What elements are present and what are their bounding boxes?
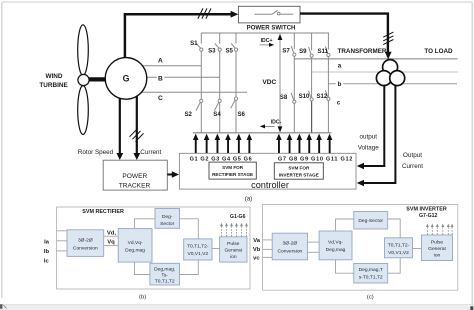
svg-text:INVERTER STAGE: INVERTER STAGE [279, 172, 319, 177]
svg-text:Current: Current [140, 149, 161, 156]
switch S12 [325, 83, 330, 132]
Output Current label [402, 152, 423, 170]
svg-text:Generat: Generat [428, 246, 446, 252]
wire T0 block to pulse generation (b) [212, 248, 220, 250]
page border top [2, 1, 472, 3]
wire Ib input [57, 240, 68, 242]
svg-text:s-T0,T1,T2: s-T0,T1,T2 [359, 275, 383, 281]
bottom caption strip [0, 305, 474, 310]
hash marks on generator-switch wire [198, 8, 211, 18]
svg-text:IDC-: IDC- [271, 119, 282, 125]
SVM INVERTER outer box (c) [263, 205, 458, 291]
gate pulse dashed arrows (b) [222, 226, 247, 237]
IDC+ direction arrow [260, 43, 275, 47]
svg-text:C: C [158, 95, 163, 102]
wire Vq (b) [104, 245, 119, 247]
block Deg,mag,Ts to T0,T1,T2 (b) [150, 263, 180, 285]
svg-text:POWER SWITCH: POWER SWITCH [247, 25, 296, 32]
switch S8 [291, 59, 296, 133]
IDC- direction arrow [260, 124, 275, 128]
wind turbine bottom blade [78, 86, 89, 135]
block Deg-Sector (c) [354, 212, 388, 230]
svg-text:b: b [338, 81, 342, 88]
wire vc input [263, 256, 273, 258]
svg-text:ion: ion [434, 253, 441, 259]
switch S9 [309, 33, 314, 71]
wire rotor speed sense [119, 98, 121, 155]
wire conversion to Vd,Vq block upper (c) [308, 241, 320, 243]
switch S5 [231, 33, 237, 92]
wire T0 block to pulse generation (c) [413, 248, 422, 250]
turbine shaft [87, 77, 107, 81]
svg-text:Vd,: Vd, [107, 231, 117, 237]
transformer winding right [390, 71, 405, 86]
svg-text:Deg-: Deg- [162, 214, 173, 220]
block T0,T1,T2 to V0,V1,V2 (b) [184, 239, 212, 260]
switch S10 [309, 71, 314, 132]
svg-text:Pulse: Pulse [227, 241, 240, 247]
wire Va input [263, 239, 273, 241]
DC top rail [201, 32, 329, 34]
transformer winding left [376, 71, 391, 86]
WIND TURBINE label [39, 73, 68, 89]
wire power switch to transformer [300, 14, 388, 53]
wire Deg,mag block to T0,T1,T2 block (b) [180, 260, 199, 275]
page border right [471, 2, 473, 306]
svg-text:V0,V1,V2: V0,V1,V2 [187, 251, 208, 257]
svg-text:S5: S5 [225, 47, 233, 54]
svg-text:Sector: Sector [160, 221, 175, 227]
wind turbine top blade [78, 25, 89, 75]
svg-text:POWER: POWER [122, 173, 147, 180]
hash marks on current sense wire [130, 129, 144, 142]
arrowhead into power switch [231, 11, 239, 18]
svg-text:S7: S7 [282, 47, 290, 54]
switch S11 [325, 33, 330, 83]
svg-text:VDC: VDC [262, 79, 276, 86]
svg-text:SVM FOR: SVM FOR [222, 165, 244, 170]
svg-text:S2: S2 [184, 111, 192, 118]
svg-text:TURBINE: TURBINE [39, 82, 68, 89]
page border left [1, 2, 3, 298]
SVM FOR RECTIFIER STAGE label [212, 165, 253, 177]
POWER TRACKER box [103, 160, 167, 190]
node b label [336, 80, 343, 88]
svg-text:Ts-: Ts- [161, 272, 168, 278]
block 3phase-2phase conversion (c) [272, 233, 307, 260]
svg-text:vc: vc [253, 255, 260, 261]
SVM FOR INVERTER STAGE box [274, 163, 323, 179]
SVM RECTIFIER outer box (b) [57, 207, 251, 289]
phase line c (inverter leg3 to load) [328, 83, 457, 85]
turbine hub [78, 74, 89, 85]
POWER TRACKER label [119, 173, 151, 189]
generator G [105, 58, 147, 100]
svg-text:3Ø-2Ø: 3Ø-2Ø [78, 237, 93, 243]
svg-text:SVM INVERTER: SVM INVERTER [406, 207, 447, 213]
svg-text:controller: controller [251, 180, 289, 190]
svg-text:S11: S11 [318, 48, 329, 55]
svg-text:T0,T1,T2-: T0,T1,T2- [388, 242, 410, 248]
wire transformer to output voltage sense [363, 85, 384, 166]
controller box [179, 153, 356, 189]
wire Vd,Vq block to Deg,mag block (b) [135, 262, 150, 274]
arrowhead current into power tracker [133, 153, 140, 160]
arrowhead voltage sense into controller [357, 163, 364, 169]
gate arrows G1-G6 [193, 134, 252, 153]
wire phase C (generator to rectifier leg3) [142, 91, 247, 93]
svg-text:Output: Output [403, 152, 422, 159]
wire Vd,Vq block to Deg,mag block (c) [336, 260, 354, 273]
svg-text:A: A [158, 58, 163, 65]
svg-text:TRANSFORMER: TRANSFORMER [338, 48, 387, 55]
phase line a (inverter leg1 to load) [294, 58, 457, 60]
DC bottom rail [193, 132, 332, 134]
switch S4 [214, 77, 221, 133]
svg-text:ion: ion [230, 254, 237, 260]
svg-text:S1: S1 [190, 40, 198, 47]
svg-text:Deg,mag,: Deg,mag, [154, 266, 175, 272]
svg-text:Va: Va [253, 238, 261, 244]
svg-text:G7 G8 G9 G10 G11 G12: G7 G8 G9 G10 G11 G12 [278, 156, 353, 162]
wire Deg,mag block to T0 block (c) [388, 258, 401, 273]
svg-text:WIND: WIND [45, 73, 62, 80]
svg-text:V0,V1,V2: V0,V1,V2 [388, 250, 409, 256]
bottom-left corner mark [0, 305, 7, 309]
svg-text:(c): (c) [367, 294, 374, 300]
svg-text:Deg,mag: Deg,mag [326, 247, 346, 253]
svg-text:S4: S4 [213, 111, 221, 118]
svg-text:S10: S10 [299, 93, 310, 100]
svg-text:Conversion: Conversion [73, 245, 98, 251]
block Vd,Vq to Deg,mag (c) [319, 231, 352, 260]
output Voltage label [358, 133, 380, 151]
svg-text:G7-G12: G7-G12 [419, 213, 438, 219]
svg-text:G: G [123, 74, 130, 84]
switch S3 [215, 33, 221, 77]
svg-text:IDC+: IDC+ [261, 38, 273, 44]
block Deg-Sector (b) [155, 209, 180, 229]
arrowhead into controller left [172, 171, 179, 177]
svg-text:Ic: Ic [44, 259, 50, 265]
block Vd,Vq to Deg,mag (b) [118, 229, 152, 263]
svg-text:Generat: Generat [224, 247, 242, 253]
wire Deg-Sector to T0,T1,T2 block (b) [180, 219, 199, 239]
block pulse generation (c) [422, 235, 453, 261]
arrowhead into transformer [385, 52, 392, 60]
svg-text:S8: S8 [280, 94, 288, 101]
arrowhead rotor speed into power tracker [116, 153, 123, 160]
block T0,T1,T2 to V0,V1,V2 (c) [385, 238, 413, 258]
svg-text:SVM RECTIFIER: SVM RECTIFIER [82, 209, 124, 215]
svg-text:Conversion: Conversion [278, 248, 303, 254]
switch S6 [231, 92, 238, 133]
gate pulse dashed arrows (c) [427, 227, 452, 235]
block Deg,mag,T to T0,T1,T2 (c) [354, 264, 388, 284]
svg-text:Current: Current [402, 163, 423, 170]
svg-text:3Ø-2Ø: 3Ø-2Ø [283, 240, 298, 246]
phase line b (inverter leg2 to load) [312, 71, 458, 73]
wire Ic input [57, 250, 68, 252]
node B label [157, 74, 165, 83]
wire Ia input [57, 230, 68, 232]
svg-text:Vq: Vq [107, 240, 115, 246]
wire current sense [136, 96, 138, 155]
power switch box [238, 6, 300, 23]
svg-text:T0,T1,T2: T0,T1,T2 [155, 278, 175, 284]
wire phase B (generator to rectifier leg2) [147, 76, 220, 78]
svg-text:Deg-Sector: Deg-Sector [358, 218, 383, 224]
block 3phase-2phase conversion (b) [67, 230, 104, 257]
wire Vb input [263, 248, 273, 250]
svg-text:S12: S12 [316, 93, 327, 100]
svg-text:RECTIFIER STAGE: RECTIFIER STAGE [212, 172, 253, 177]
power switch symbol [255, 10, 294, 15]
svg-text:Ib: Ib [44, 249, 50, 255]
IDC- down arrowhead [278, 126, 283, 132]
svg-text:(a): (a) [245, 197, 252, 203]
switch S7 [291, 33, 296, 59]
SVM FOR INVERTER STAGE label [279, 166, 319, 178]
svg-text:Vb: Vb [253, 247, 261, 253]
wire Vd (b) [104, 235, 119, 237]
wire Deg-Sector to T0 block (c) [388, 219, 401, 238]
wire transformer to output current sense [363, 85, 395, 183]
svg-text:c: c [337, 100, 341, 107]
svg-text:TO LOAD: TO LOAD [424, 48, 453, 55]
Vq label (b) [106, 238, 117, 246]
svg-text:Rotor Speed: Rotor Speed [78, 149, 114, 156]
svg-text:G1 G2 G3 G4 G5 G6: G1 G2 G3 G4 G5 G6 [190, 156, 253, 162]
svg-text:Ia: Ia [44, 240, 50, 246]
transformer winding top [383, 60, 398, 75]
arrowhead current sense into controller [357, 180, 364, 186]
wire conversion to Vd,Vq block lower (c) [308, 251, 320, 253]
SVM FOR RECTIFIER STAGE box [209, 162, 256, 179]
svg-text:T0,T1,T2-: T0,T1,T2- [187, 243, 209, 249]
gate arrows G7-G12 [276, 134, 332, 153]
VDC measurement line [279, 36, 281, 130]
svg-text:(b): (b) [139, 294, 146, 300]
svg-text:S9: S9 [299, 48, 307, 55]
svg-text:Deg,mag: Deg,mag [125, 247, 145, 253]
svg-text:Vd,Vq-: Vd,Vq- [328, 239, 343, 245]
svg-text:G1-G6: G1-G6 [230, 214, 246, 220]
switch S1 [196, 33, 203, 66]
wire phase A (generator to rectifier leg1) [143, 65, 202, 67]
svg-text:output: output [359, 133, 377, 140]
wire Vd,Vq block to Deg-Sector (c) [336, 219, 354, 231]
hash marks on transformer drop wire [383, 32, 393, 45]
svg-text:Voltage: Voltage [358, 145, 380, 152]
svg-text:TRACKER: TRACKER [119, 182, 151, 189]
svg-text:Vd,Vq-: Vd,Vq- [128, 240, 143, 246]
Vd label (b) [106, 229, 118, 237]
IDC+ up arrowhead [278, 34, 283, 40]
svg-text:Pulse: Pulse [431, 240, 444, 246]
svg-text:Deg,mag,T: Deg,mag,T [359, 267, 383, 273]
svg-text:B: B [158, 76, 163, 83]
svg-text:S6: S6 [237, 111, 245, 118]
wire generator to power switch [125, 14, 231, 58]
switch S2 [196, 66, 203, 133]
wire Vd,Vq block to Deg-Sector (b) [135, 219, 156, 229]
svg-text:SVM FOR: SVM FOR [288, 166, 310, 171]
wire power tracker to controller [167, 174, 173, 176]
svg-text:S3: S3 [208, 47, 216, 54]
bottom-right corner mark [470, 306, 473, 310]
block pulse generation (b) [220, 237, 247, 262]
svg-text:a: a [338, 62, 342, 69]
